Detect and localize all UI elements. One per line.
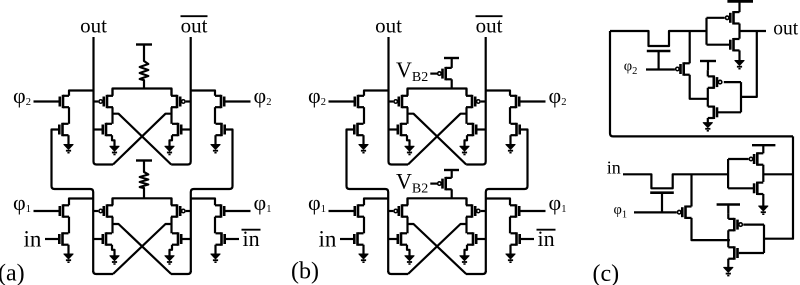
wire M12 source to ground (a) [112, 245, 115, 256]
wire cross-couple diagonal 2 lower (b) [408, 224, 467, 274]
wire middle rail upper (b) [408, 89, 467, 96]
wire M10 source to ground (a) [67, 245, 69, 254]
ground under M10 (b) [359, 254, 368, 262]
wire inbar gate (a) [225, 238, 239, 240]
ground under Q10 (c) [759, 206, 768, 214]
wire Q8 drain up to input line (c) [690, 174, 692, 206]
wire M10 source to ground (b) [362, 245, 364, 254]
wire cross-couple diagonal 2 upper (a) [113, 114, 172, 165]
wire M5 drain to outbar (b) [486, 91, 511, 96]
transistor Q7 pass phi1 (c) [650, 191, 674, 194]
transistor Q3 inverter pmos (c) [725, 11, 739, 24]
ground under M14 (a) [211, 254, 220, 262]
wire M15-M16 junction (b) [465, 217, 467, 234]
transistor M3 cross pmos left (a) [99, 95, 113, 108]
wire in gate (a) [45, 238, 59, 240]
wire Q6 source to ground (c) [707, 118, 709, 123]
wire M3-M4 junction (a) [111, 107, 113, 124]
wire keeper nmos gate wire (c) [717, 111, 741, 113]
wire feedback right (a) [191, 130, 233, 273]
wire VB2 lower gate (b) [430, 183, 437, 185]
transistor Q1 pass phi2 (c) [647, 50, 671, 53]
wire Q2 source down to keeper out (c) [690, 75, 708, 99]
wire out line (a) [94, 37, 114, 165]
wire VB2 upper source (b) [451, 79, 453, 88]
svg-text:in: in [319, 227, 337, 252]
svg-text:φ1: φ1 [549, 190, 567, 215]
supply terminal upper (b) [444, 57, 459, 59]
wire M16 source to ground (a) [170, 245, 173, 256]
wire M3 gate from out (b) [389, 100, 394, 102]
wire cross-couple diagonal 1 upper (b) [408, 114, 467, 165]
transistor M1 clock phi2 left (a) [60, 95, 69, 108]
wire M15 drain to rail (a) [170, 198, 172, 205]
svg-text:φ1: φ1 [254, 190, 272, 215]
wire M8 gate from outbar (b) [476, 128, 485, 130]
transistor Q8 keeper pass pmos (c) [677, 206, 691, 219]
transistor M2 feedback left (a) [59, 123, 68, 136]
wire M15 gate tap (b) [481, 210, 486, 212]
transistor M4 cross nmos left (a) [103, 123, 112, 136]
transistor Q4 inverter nmos (c) [730, 38, 739, 51]
wire M3 drain to rail (a) [111, 89, 113, 96]
wire middle rail lower (a) [113, 198, 172, 205]
ground under M14 (b) [506, 254, 515, 262]
svg-text:φ1: φ1 [13, 190, 31, 215]
transistor M11 cross pmos left lower (a) [99, 204, 113, 217]
ground under M4 (b) [405, 146, 414, 154]
transistor M12 cross nmos left lower (a) [103, 232, 112, 245]
wire M11 drain to rail (a) [111, 198, 113, 205]
wire cross-couple diagonal 2 lower (a) [113, 224, 172, 274]
wire cross-couple diagonal 2 upper (b) [408, 114, 467, 165]
wire M4 source to ground (b) [407, 135, 410, 146]
wire M12 gate tap (b) [388, 238, 398, 240]
wire VB2 lower source (b) [451, 189, 453, 198]
svg-text:φ1: φ1 [614, 202, 628, 221]
wire inbar gate (b) [520, 238, 534, 240]
wire stage1 output node (c) [763, 173, 793, 175]
wire M1 drain to out (b) [364, 91, 389, 96]
transistor M13 clock phi1 right (a) [215, 204, 224, 217]
wire out node (c) [740, 30, 767, 32]
wire VB2 upper gate (b) [430, 72, 437, 74]
wire keeper pmos gate wire stage1 (c) [743, 224, 764, 226]
transistor M12' cross nmos left lower (b) [398, 232, 407, 245]
resistor R2 load lower (a) [140, 161, 149, 199]
wire phi2 left gate (a) [34, 100, 60, 102]
ground under Q6 (c) [703, 123, 712, 131]
wire M7 drain to rail (a) [170, 89, 172, 96]
transistor M5 clock phi2 right (a) [215, 95, 224, 108]
wire stage2 feedback loop box [610, 31, 793, 136]
wire M14 source to ground (b) [509, 245, 511, 254]
transistor M11' cross pmos left lower (b) [394, 204, 408, 217]
wire M16 source to ground (b) [465, 245, 468, 256]
transistor M8 cross nmos right (a) [172, 123, 181, 136]
transistor M9 clock phi1 left (a) [60, 204, 69, 217]
inbar overline (a) [242, 229, 261, 231]
transistor M8' cross nmos right (b) [467, 123, 476, 136]
wire middle rail lower (b) [408, 198, 467, 205]
wire M11 gate tap (a) [93, 210, 98, 212]
transistor Q6 keeper nmos (c) [708, 106, 717, 119]
svg-text:VB2: VB2 [396, 169, 428, 197]
wire keeper pmos gate wire (c) [724, 81, 741, 83]
wire M4 gate from out (a) [94, 128, 103, 130]
outbar overline (b) [476, 15, 503, 17]
wire phi1 right gate (b) [519, 210, 545, 212]
ground under M6 right (a) [211, 145, 220, 153]
wire M15 gate tap (a) [186, 210, 191, 212]
wire M12 gate tap (a) [93, 238, 103, 240]
wire phi1 right gate (a) [224, 210, 250, 212]
transistor M15' cross pmos right lower (b) [466, 204, 480, 217]
wire M5 drain to outbar (a) [191, 91, 216, 96]
supply terminal keeper top (c) [700, 61, 716, 70]
svg-text:in: in [607, 158, 621, 178]
wire M2 source to ground (a) [67, 135, 69, 144]
ground under M10 (a) [64, 254, 73, 262]
ground under M12 (b) [405, 256, 414, 264]
inbar overline (b) [537, 229, 556, 231]
transistor M14' input inbar (b) [511, 232, 520, 245]
wire phi1 left gate (b) [329, 210, 355, 212]
wire Q3 drain to out (c) [738, 24, 740, 39]
wire feedback left (b) [347, 130, 389, 273]
transistor M15 cross pmos right lower (a) [171, 204, 185, 217]
wire Q5-Q6 junction (c) [707, 88, 709, 107]
wire M13-M14 junction (b) [509, 217, 511, 234]
transistor Q5 keeper pmos (c) [708, 75, 722, 88]
wire M4 gate from out (b) [389, 128, 398, 130]
wire M4 source to ground (a) [112, 135, 115, 146]
wire VB2 upper drain (b) [451, 58, 453, 68]
wire cross-couple diagonal 1 lower (a) [113, 224, 172, 274]
wire Q12 source to ground (c) [727, 259, 729, 268]
supply terminal top (c) [727, 0, 753, 3]
transistor Q2 keeper pass pmos (c) [676, 62, 690, 75]
svg-text:(c): (c) [593, 261, 620, 285]
svg-text:out: out [181, 14, 208, 38]
wire phi2 gate stem (c) [657, 52, 659, 70]
wire Q10 source to ground (c) [762, 194, 764, 206]
wire phi1 left gate (a) [34, 210, 60, 212]
wire out line (b) [389, 37, 409, 165]
transistor M2' feedback left (b) [354, 123, 363, 136]
wire U2 nmos gate wire (c) [728, 187, 754, 189]
transistor M14 input inbar (a) [216, 232, 225, 245]
svg-text:(b): (b) [291, 259, 319, 285]
svg-text:φ2: φ2 [13, 83, 31, 108]
wire bottom right corner (a) [171, 271, 191, 274]
wire Q9 source to supply (c) [762, 145, 764, 153]
wire outbar line (b) [466, 37, 486, 165]
transistor M10' input in (b) [354, 232, 363, 245]
wire inverter U1 input vertical (c) [705, 18, 707, 45]
wire M13 drain rail right (a) [191, 199, 215, 206]
wire M6 source to ground (b) [509, 135, 511, 144]
ground under M8 (b) [460, 146, 469, 154]
wire M9 drain rail left (a) [69, 199, 93, 206]
wire M13-M14 junction (a) [214, 217, 216, 234]
wire Q8 source down to keeper out (c) [692, 218, 730, 240]
wire M1 drain to out (a) [69, 91, 94, 96]
supply terminal lower (a) [136, 159, 152, 161]
wire VB2 lower drain (b) [451, 170, 453, 178]
wire M11-M12 junction (a) [111, 217, 113, 234]
transistor M4' cross nmos left (b) [398, 123, 407, 136]
wire M2 source to ground (b) [362, 135, 364, 144]
wire M15-M16 junction (a) [170, 217, 172, 234]
wire M7 gate from outbar (a) [186, 100, 191, 102]
wire keeper gate bus (c) [740, 82, 742, 112]
wire M9 drain rail left (b) [364, 199, 388, 206]
svg-text:out: out [476, 14, 503, 38]
wire M8 source to ground (b) [465, 135, 468, 146]
wire bottom right corner (b) [466, 271, 486, 274]
svg-text:out: out [80, 14, 107, 38]
wire U2 pmos gate wire (c) [728, 158, 748, 160]
ground under M12 (a) [110, 256, 119, 264]
wire U1 nmos gate wire (c) [707, 44, 731, 46]
transistor M16' cross nmos right lower (b) [467, 232, 476, 245]
transistor M6 feedback right (a) [216, 123, 225, 136]
wire bottom left corner (b) [388, 271, 408, 274]
wire outbar line (a) [171, 37, 191, 165]
svg-text:out: out [773, 19, 799, 40]
wire cross-couple diagonal 1 upper (a) [113, 114, 172, 165]
supply terminal stage1 (c) [752, 144, 775, 146]
wire M8 source to ground (a) [170, 135, 173, 146]
wire stage2 input line with pass notch [610, 31, 707, 46]
transistor M10 input in (a) [59, 232, 68, 245]
transistor M13' clock phi1 right (b) [510, 204, 519, 217]
ground under M8 (a) [165, 146, 174, 154]
wire M3-M4 junction (b) [406, 107, 408, 124]
wire M15 drain to rail (b) [465, 198, 467, 205]
wire M9-M10 junction (b) [363, 217, 365, 234]
ground under Q4 (c) [735, 61, 744, 69]
wire M9-M10 junction (a) [68, 217, 70, 234]
transistor M5' clock phi2 right (b) [510, 95, 519, 108]
transistor Q9 inverter pmos (c) [749, 152, 763, 165]
wire Q2 drain up to input line (c) [689, 31, 691, 63]
svg-text:φ2: φ2 [624, 59, 638, 78]
wire feedback left (a) [52, 130, 94, 273]
wire M12 source to ground (b) [407, 245, 410, 256]
wire M5-M6 junction right (b) [509, 107, 511, 124]
wire M8 gate from outbar (a) [181, 128, 190, 130]
wire M16 gate tap (a) [181, 238, 191, 240]
ground under Q12 (c) [724, 267, 733, 275]
transistor M6' feedback right (b) [511, 123, 520, 136]
wire M6 source to ground (a) [214, 135, 216, 144]
wire bottom left corner (a) [93, 271, 113, 274]
resistor R1 load upper (a) [140, 45, 149, 89]
wire feedback right (b) [486, 130, 528, 273]
supply terminal lower (b) [444, 169, 459, 171]
wire Q11-Q12 junction (c) [727, 230, 729, 247]
transistor VB2 lower current source (b) [438, 177, 452, 190]
svg-text:φ2: φ2 [308, 83, 326, 108]
wire M7 gate from outbar (b) [481, 100, 486, 102]
transistor Q10 inverter nmos (c) [754, 182, 763, 195]
wire M1-M2 junction left (b) [363, 107, 365, 124]
svg-text:out: out [375, 14, 402, 38]
transistor M3' cross pmos left (b) [394, 95, 408, 108]
transistor Q11 keeper pmos stage1 (c) [728, 218, 742, 231]
transistor M7 cross pmos right (a) [171, 95, 185, 108]
svg-text:φ2: φ2 [549, 83, 567, 108]
wire keeper gate bus stage1 (c) [763, 225, 765, 253]
supply terminal keeper stage1 (c) [717, 205, 740, 214]
wire M13 drain rail right (b) [486, 199, 510, 206]
wire in gate (b) [340, 238, 354, 240]
transistor Q12 keeper nmos stage1 (c) [728, 246, 737, 259]
transistor M16 cross nmos right lower (a) [172, 232, 181, 245]
wire Q11 source to supply (c) [727, 213, 729, 219]
wire M5-M6 junction right (a) [214, 107, 216, 124]
wire M11 gate tap (b) [388, 210, 393, 212]
wire phi2 gate wire (c) [646, 68, 675, 70]
wire stage1 input line with pass notch (c) [623, 174, 728, 188]
svg-text:φ2: φ2 [254, 83, 272, 108]
wire M16 gate tap (b) [476, 238, 486, 240]
transistor M7' cross pmos right (b) [466, 95, 480, 108]
svg-text:VB2: VB2 [396, 57, 428, 85]
wire M7 drain to rail (b) [465, 89, 467, 96]
wire M7-M8 junction (b) [465, 107, 467, 124]
wire Q9 drain to node (c) [762, 165, 764, 182]
wire M3 gate from out (a) [94, 100, 99, 102]
ground under M2 left (a) [64, 145, 73, 153]
supply terminal upper (a) [136, 43, 152, 45]
wire Q5 source to supply (c) [707, 70, 709, 76]
svg-text:in: in [24, 227, 42, 252]
wire Q4 source to ground (c) [738, 50, 740, 60]
wire M14 source to ground (a) [214, 245, 216, 254]
ground under M6 right (b) [506, 145, 515, 153]
outbar overline (a) [181, 15, 208, 17]
wire U1 pmos gate wire (c) [707, 17, 725, 19]
wire phi1 gate stem (c) [661, 194, 663, 213]
wire out feedback drop (c) [741, 31, 757, 97]
svg-text:(a): (a) [0, 260, 25, 285]
wire phi2 left gate (b) [329, 100, 355, 102]
wire M11 drain to rail (b) [406, 198, 408, 205]
wire M7-M8 junction (a) [170, 107, 172, 124]
wire M1-M2 junction left (a) [68, 107, 70, 124]
ground under M4 (a) [110, 146, 119, 154]
wire phi2 right gate (b) [519, 100, 545, 102]
wire stage1 feedback drop (c) [764, 136, 793, 238]
wire phi1 gate wire (c) [634, 211, 677, 213]
wire inverter U2 input vertical (c) [727, 159, 729, 188]
ground under M16 (b) [460, 256, 469, 264]
wire M3 drain to rail (b) [406, 89, 408, 96]
transistor M1' clock phi2 left (b) [355, 95, 364, 108]
ground under M16 (a) [165, 256, 174, 264]
wire Q3 source to supply (c) [738, 1, 740, 12]
wire middle rail upper (a) [113, 89, 172, 96]
wire phi2 right gate (a) [224, 100, 250, 102]
svg-text:φ1: φ1 [308, 190, 326, 215]
wire cross-couple diagonal 1 lower (b) [408, 224, 467, 274]
ground under M2 left (b) [359, 145, 368, 153]
transistor M9' clock phi1 left (b) [355, 204, 364, 217]
wire M11-M12 junction (b) [406, 217, 408, 234]
transistor VB2 upper current source (b) [438, 67, 452, 80]
wire keeper nmos gate wire stage1 (c) [739, 252, 764, 254]
